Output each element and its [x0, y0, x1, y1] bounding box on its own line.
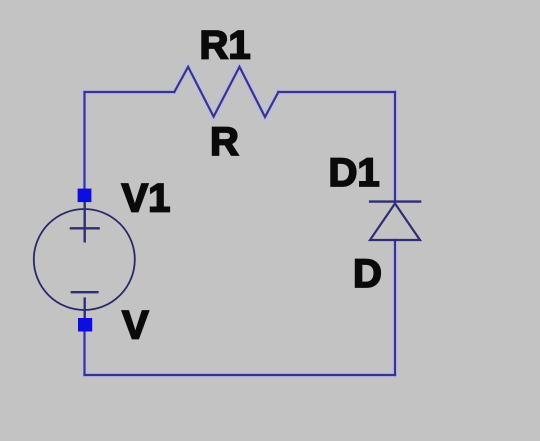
svg-text:D1: D1	[329, 151, 380, 195]
V1 plus sign vertical (top pin into circle)	[83, 196, 85, 243]
wire left-bottom vertical segment	[83, 325, 85, 375]
svg-text:R1: R1	[200, 24, 251, 68]
wire top-left horizontal segment	[85, 91, 175, 93]
wire bottom horizontal segment	[85, 374, 396, 376]
svg-text:R: R	[210, 120, 239, 164]
svg-text:D: D	[353, 252, 382, 296]
V1 plus sign horizontal	[70, 227, 100, 229]
V1 minus sign horizontal	[71, 291, 99, 293]
wire halo glow	[85, 67, 396, 375]
terminal square (V1 bottom pin)	[78, 318, 92, 332]
wire left vertical segment	[83, 92, 85, 190]
terminal square (V1 top pin)	[78, 189, 92, 203]
svg-text:V1: V1	[122, 177, 171, 221]
diode D1 triangle (anode)	[370, 204, 420, 241]
resistor R1 zigzag body	[174, 67, 278, 117]
wire right vertical upper segment	[394, 92, 396, 201]
wire top-right horizontal segment	[278, 91, 395, 93]
diode D1 cathode bar	[369, 200, 421, 202]
voltage source V1 circle body	[34, 209, 135, 310]
svg-text:V: V	[122, 304, 149, 348]
wire right vertical lower segment	[394, 240, 396, 375]
V1 bottom pin from minus to terminal	[83, 297, 85, 325]
